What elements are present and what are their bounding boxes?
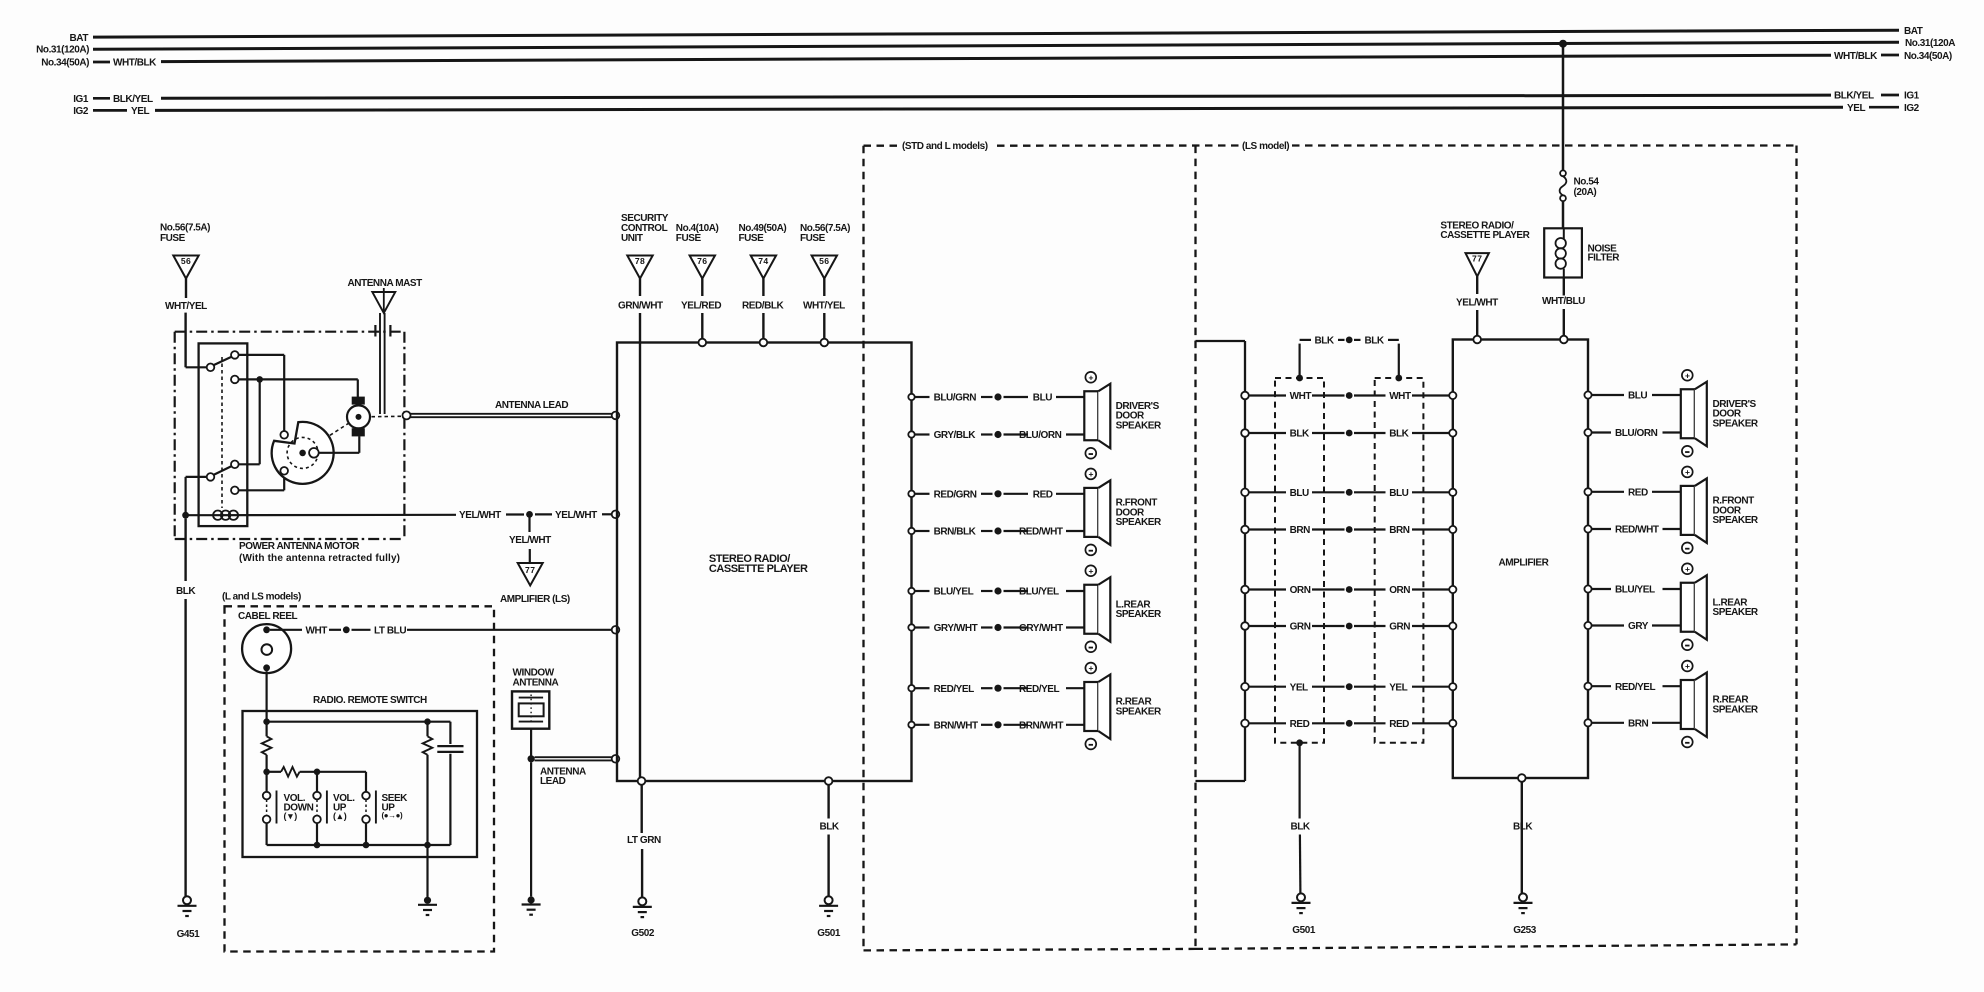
svg-text:BRN: BRN [1389,525,1410,536]
svg-text:FILTER: FILTER [1588,253,1621,264]
svg-text:(LS model): (LS model) [1242,141,1289,152]
svg-text:LEAD: LEAD [540,776,566,787]
svg-text:G451: G451 [177,929,201,940]
svg-text:77: 77 [1472,254,1482,264]
svg-text:+: + [1089,663,1094,673]
svg-text:BLU: BLU [1033,393,1052,404]
svg-text:ORN: ORN [1290,585,1311,596]
svg-text:YEL: YEL [1389,682,1407,693]
svg-text:WHT/YEL: WHT/YEL [803,301,845,312]
svg-text:RED/WHT: RED/WHT [1615,525,1659,536]
svg-text:ANTENNA LEAD: ANTENNA LEAD [495,400,568,411]
svg-text:WHT/YEL: WHT/YEL [165,301,207,312]
svg-text:YEL/WHT: YEL/WHT [1456,297,1498,308]
svg-text:POWER ANTENNA MOTOR: POWER ANTENNA MOTOR [239,541,360,552]
svg-text:WHT: WHT [1389,391,1411,402]
svg-text:YEL/RED: YEL/RED [681,301,721,312]
svg-text:SPEAKER: SPEAKER [1116,517,1162,528]
svg-text:FUSE: FUSE [739,233,765,244]
svg-text:BLK/YEL: BLK/YEL [1834,91,1874,102]
svg-text:G502: G502 [631,928,655,939]
svg-text:RED/YEL: RED/YEL [934,684,975,695]
svg-text:BRN/WHT: BRN/WHT [1019,720,1063,731]
svg-text:RED: RED [1290,719,1310,730]
svg-text:(●→●): (●→●) [382,811,404,820]
svg-text:RED/BLK: RED/BLK [742,301,785,312]
svg-text:WHT: WHT [1290,391,1312,402]
svg-text:BLK: BLK [1365,336,1385,347]
svg-text:YEL: YEL [1290,682,1308,693]
svg-text:(L and LS models): (L and LS models) [222,592,301,603]
svg-text:SPEAKER: SPEAKER [1116,706,1162,717]
svg-text:GRY: GRY [1628,621,1649,632]
svg-text:FUSE: FUSE [676,233,702,244]
svg-text:+: + [1089,566,1094,576]
svg-text:BRN/BLK: BRN/BLK [934,527,977,538]
svg-text:G253: G253 [1513,925,1537,936]
svg-text:(With the antenna retracted fu: (With the antenna retracted fully) [239,553,400,564]
svg-text:74: 74 [758,256,768,266]
svg-text:ANTENNA MAST: ANTENNA MAST [348,278,423,289]
svg-text:BLU/YEL: BLU/YEL [934,587,974,598]
svg-text:No.34(50A): No.34(50A) [1904,51,1952,62]
svg-text:GRN: GRN [1389,622,1410,633]
svg-text:WHT: WHT [306,625,328,636]
svg-text:BRN/WHT: BRN/WHT [934,720,978,731]
svg-text:(20A): (20A) [1574,187,1597,198]
svg-text:No.31(120A): No.31(120A) [36,45,89,56]
svg-text:(STD and L models): (STD and L models) [902,141,988,152]
svg-text:FUSE: FUSE [800,233,826,244]
svg-text:BAT: BAT [1904,26,1923,37]
svg-text:RED: RED [1033,489,1053,500]
svg-text:+: + [1685,564,1690,574]
svg-text:LT GRN: LT GRN [627,835,661,846]
svg-text:YEL/WHT: YEL/WHT [509,535,551,546]
svg-text:76: 76 [697,256,707,266]
svg-text:BLU/YEL: BLU/YEL [1019,587,1059,598]
svg-text:No.56(7.5A): No.56(7.5A) [160,223,210,234]
svg-text:AMPLIFIER (LS): AMPLIFIER (LS) [500,594,570,605]
svg-text:SPEAKER: SPEAKER [1713,515,1759,526]
svg-text:BLU/ORN: BLU/ORN [1019,430,1062,441]
svg-text:YEL: YEL [131,106,149,117]
svg-text:AMPLIFIER: AMPLIFIER [1499,557,1550,568]
svg-text:FUSE: FUSE [160,233,186,244]
svg-text:RED/YEL: RED/YEL [1615,682,1656,693]
svg-text:BLK: BLK [820,822,840,833]
svg-text:+: + [1089,469,1094,479]
svg-text:CABEL REEL: CABEL REEL [238,611,298,622]
svg-text:BAT: BAT [70,33,89,44]
svg-text:YEL: YEL [1847,103,1865,114]
svg-text:RED/YEL: RED/YEL [1019,684,1060,695]
svg-text:G501: G501 [817,928,841,939]
svg-text:BLK: BLK [176,586,196,597]
svg-text:SPEAKER: SPEAKER [1116,420,1162,431]
svg-text:IG1: IG1 [73,94,89,105]
svg-text:SPEAKER: SPEAKER [1713,607,1759,618]
svg-text:LT BLU: LT BLU [374,625,406,636]
svg-text:CASSETTE PLAYER: CASSETTE PLAYER [1440,230,1530,241]
svg-text:+: + [1685,467,1690,477]
svg-text:56: 56 [181,256,191,266]
svg-text:SPEAKER: SPEAKER [1713,704,1759,715]
svg-text:IG1: IG1 [1904,91,1920,102]
svg-text:WHT/BLU: WHT/BLU [1542,296,1585,307]
svg-text:RED/GRN: RED/GRN [934,489,977,500]
svg-text:No.54: No.54 [1574,177,1600,188]
svg-text:BLK: BLK [1291,822,1311,833]
svg-text:+: + [1089,372,1094,382]
svg-text:GRY/WHT: GRY/WHT [934,623,978,634]
svg-text:BLK/YEL: BLK/YEL [113,94,153,105]
svg-text:RED: RED [1389,719,1409,730]
svg-text:YEL/WHT: YEL/WHT [459,510,501,521]
svg-text:BLK: BLK [1290,429,1310,440]
svg-text:+: + [1685,370,1690,380]
svg-text:SPEAKER: SPEAKER [1713,418,1759,429]
svg-text:G501: G501 [1292,925,1316,936]
svg-text:( ▴ ): ( ▴ ) [333,811,347,821]
svg-text:BLU: BLU [1628,391,1647,402]
svg-text:BLU/ORN: BLU/ORN [1615,428,1658,439]
svg-text:BLU: BLU [1290,488,1309,499]
svg-text:IG2: IG2 [73,106,89,117]
svg-text:RED: RED [1628,487,1648,498]
svg-text:GRN/WHT: GRN/WHT [618,301,663,312]
svg-text:BLK: BLK [1389,429,1409,440]
svg-text:BLU/GRN: BLU/GRN [934,393,977,404]
svg-text:ANTENNA: ANTENNA [513,678,559,689]
svg-text:No.31(120A: No.31(120A [1905,38,1955,49]
svg-text:BLU: BLU [1389,488,1408,499]
svg-text:GRY/WHT: GRY/WHT [1019,623,1063,634]
svg-text:56: 56 [819,256,829,266]
svg-text:WHT/BLK: WHT/BLK [113,58,157,69]
svg-text:RADIO. REMOTE SWITCH: RADIO. REMOTE SWITCH [313,695,427,706]
svg-text:BRN: BRN [1628,718,1649,729]
svg-text:RED/WHT: RED/WHT [1019,527,1063,538]
svg-text:( ▾ ): ( ▾ ) [284,811,298,821]
svg-text:+: + [1685,661,1690,671]
svg-text:BRN: BRN [1290,525,1311,536]
svg-text:BLK: BLK [1513,822,1533,833]
svg-text:WHT/BLK: WHT/BLK [1834,51,1878,62]
svg-text:SPEAKER: SPEAKER [1116,609,1162,620]
svg-text:CASSETTE PLAYER: CASSETTE PLAYER [709,563,808,575]
svg-text:77: 77 [525,565,535,575]
svg-text:No.34(50A): No.34(50A) [41,58,89,69]
svg-text:GRY/BLK: GRY/BLK [934,430,977,441]
svg-text:ORN: ORN [1389,585,1410,596]
svg-text:YEL/WHT: YEL/WHT [555,510,597,521]
svg-text:GRN: GRN [1290,622,1311,633]
svg-text:BLK: BLK [1315,336,1335,347]
svg-text:78: 78 [635,256,645,266]
svg-text:BLU/YEL: BLU/YEL [1615,585,1655,596]
svg-text:UNIT: UNIT [621,233,643,244]
svg-text:IG2: IG2 [1904,103,1920,114]
